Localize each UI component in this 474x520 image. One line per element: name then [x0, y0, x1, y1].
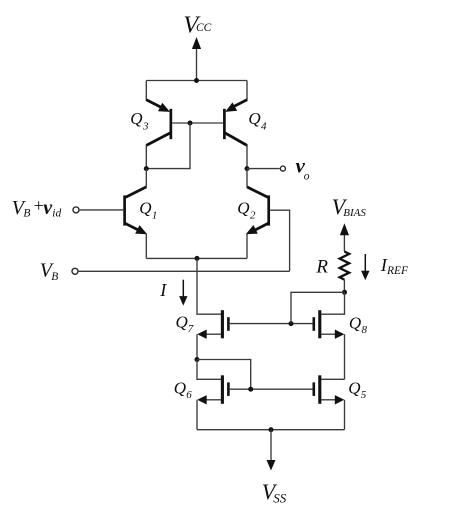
label IREF: [380, 255, 409, 277]
terminal vo: [280, 166, 285, 171]
svg-text:Q: Q: [174, 378, 186, 397]
svg-text:I: I: [159, 280, 167, 300]
wire Q6 drain lead: [197, 360, 221, 380]
svg-text:4: 4: [261, 120, 267, 132]
node Q7 source / Q6 drain junction: [195, 357, 200, 362]
label VB: [40, 260, 58, 284]
svg-text:7: 7: [188, 323, 194, 335]
node base junction: [188, 121, 193, 126]
wire Q4 collector drop: [246, 145, 248, 169]
label VB+vid input: [12, 195, 62, 219]
node R to Q8 drain junction: [342, 290, 347, 295]
transistor Q3: [146, 100, 171, 146]
label Q3: [130, 109, 149, 132]
svg-text:3: 3: [142, 120, 149, 132]
wire Q8 gate-drain connection: [291, 292, 345, 323]
svg-text:REF: REF: [386, 265, 409, 277]
svg-text:Q: Q: [139, 199, 151, 218]
wire Q6 gate-drain connection: [197, 360, 251, 390]
wire VCC rail right drop: [246, 81, 248, 101]
wire R bottom lead: [343, 280, 345, 293]
transistor Q8: [314, 310, 345, 339]
node gate junction upper: [289, 321, 294, 326]
power VCC arrow: [192, 37, 201, 81]
wire Q3 collector drop: [145, 145, 147, 169]
svg-text:8: 8: [362, 324, 368, 336]
wire bottom rail: [197, 429, 345, 431]
node VSS junction: [269, 427, 274, 432]
label Q1: [139, 199, 157, 222]
wire Q5 source drop: [344, 400, 346, 430]
label VCC: [183, 12, 211, 39]
label VBIAS: [332, 194, 367, 219]
wire Q6-Q5 gate link: [230, 388, 313, 390]
wire Q7-Q8 gate link: [230, 323, 313, 325]
wire emitter tail: [146, 257, 247, 259]
wire Q1 base lead: [80, 209, 124, 211]
svg-text:Q: Q: [176, 313, 188, 332]
wire VCC rail: [146, 80, 247, 82]
wire Q2 collector riser: [246, 169, 248, 188]
wire Q5 drain lead: [321, 378, 345, 380]
wire tail to Q7 drain: [197, 258, 221, 314]
svg-text:Q: Q: [248, 109, 260, 128]
wire Q3-Q4 base link: [172, 122, 223, 124]
svg-text:Q: Q: [130, 109, 142, 128]
wire Q8 drain lead: [321, 292, 345, 314]
transistor Q1: [125, 187, 148, 234]
wire Q8 source to Q5 drain: [344, 334, 346, 379]
label Q6: [174, 378, 193, 401]
svg-text:+: +: [34, 195, 44, 215]
wire Q1 emitter drop: [145, 234, 147, 259]
svg-text:BIAS: BIAS: [343, 207, 366, 219]
node gate junction lower: [248, 387, 253, 392]
power VBIAS arrow: [340, 223, 349, 251]
node output junction: [245, 166, 250, 171]
terminal VB: [72, 268, 78, 274]
label Q2: [237, 199, 256, 222]
label VSS: [262, 479, 287, 505]
terminal VB+vid: [73, 207, 79, 213]
svg-text:o: o: [304, 170, 310, 182]
transistor Q4: [224, 100, 247, 146]
transistor Q5: [314, 375, 345, 404]
wire Q2 emitter drop: [246, 234, 248, 259]
svg-text:B: B: [51, 271, 58, 283]
svg-text:1: 1: [152, 209, 158, 221]
transistor Q7: [197, 310, 228, 339]
wire Q7 source drop: [196, 334, 198, 359]
transistor Q6: [197, 375, 228, 404]
resistor R: [340, 252, 350, 280]
wire Q1 collector riser: [145, 169, 147, 188]
wire VB line: [79, 270, 290, 272]
wire base-to-collector diode connection: [146, 123, 190, 169]
wire VCC rail left drop: [145, 81, 147, 101]
node tail junction: [195, 256, 200, 261]
wire Q2 base lead: [270, 210, 290, 271]
svg-text:Q: Q: [349, 314, 361, 333]
svg-text:2: 2: [250, 209, 256, 221]
node VCC junction: [194, 78, 199, 83]
svg-text:R: R: [315, 256, 328, 277]
wire output stub: [247, 168, 280, 170]
label vo: [296, 154, 310, 183]
svg-text:B: B: [23, 208, 30, 220]
svg-text:SS: SS: [273, 490, 287, 505]
transistor Q2: [246, 187, 269, 234]
wire Q6 source drop: [196, 400, 198, 430]
svg-text:id: id: [52, 208, 61, 220]
label Q8: [349, 314, 368, 336]
svg-text:5: 5: [361, 389, 367, 401]
label Q4: [248, 109, 267, 132]
annotation arrow I: [179, 280, 187, 306]
label Q7: [176, 313, 194, 335]
svg-text:6: 6: [186, 389, 192, 401]
svg-text:CC: CC: [196, 22, 212, 34]
label Q5: [348, 378, 367, 401]
annotation arrow IREF: [361, 254, 369, 280]
node left mirror junction: [144, 166, 149, 171]
svg-text:Q: Q: [348, 378, 360, 397]
svg-text:Q: Q: [237, 199, 249, 218]
power VSS arrow: [267, 430, 276, 471]
